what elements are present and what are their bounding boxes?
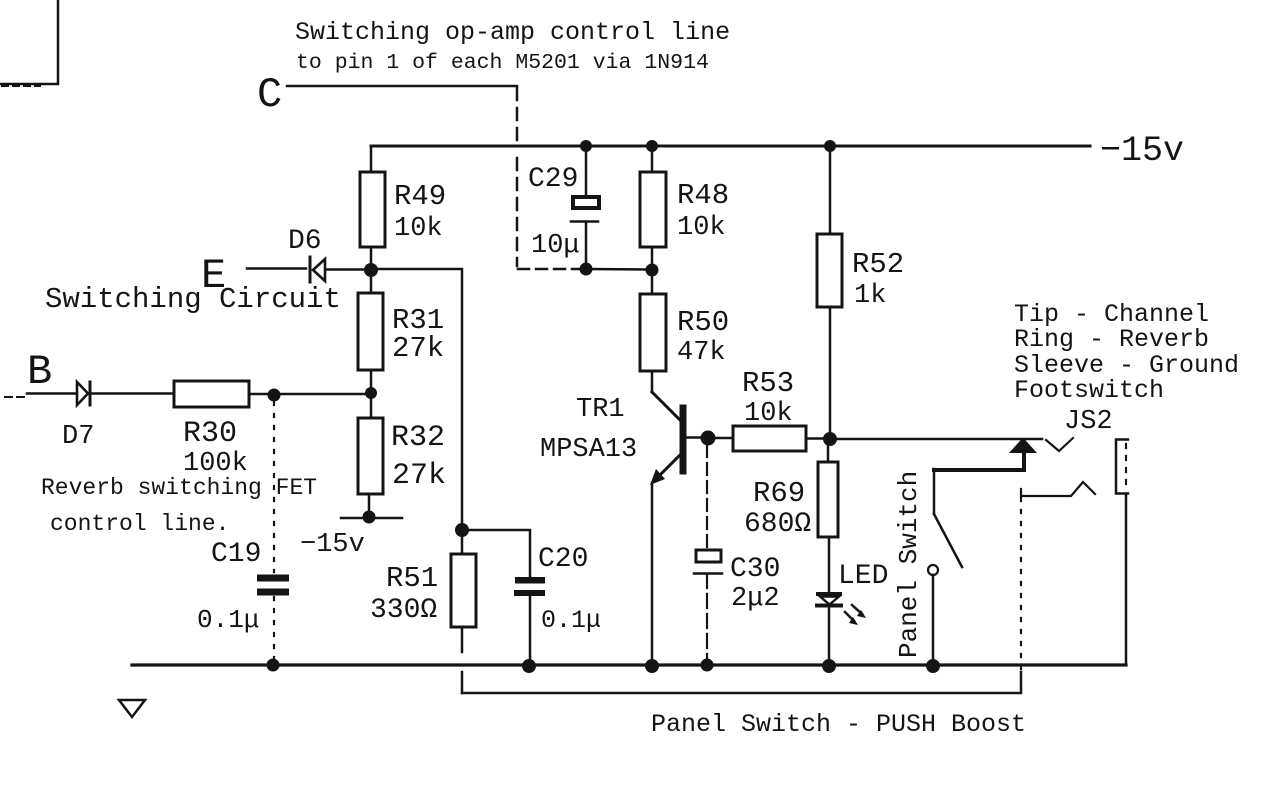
svg-text:control line.: control line.: [50, 511, 229, 537]
svg-text:C30: C30: [730, 554, 780, 585]
svg-text:1k: 1k: [854, 281, 886, 311]
svg-text:D7: D7: [62, 422, 94, 452]
junction dot reverb control tap: [268, 389, 281, 402]
svg-text:27k: 27k: [392, 459, 446, 493]
svg-text:C20: C20: [538, 544, 588, 575]
dashed wire C19 down to ground rail: [273, 597, 275, 660]
panel switch contact wire to ground rail: [932, 575, 935, 660]
wire from node C: [287, 85, 517, 88]
wire R50 bottom to TR1 collector: [651, 371, 654, 392]
ground rail junction dot C20: [522, 659, 536, 673]
junction dot R48 top on rail: [646, 140, 658, 152]
svg-text:R30: R30: [183, 417, 237, 451]
wire C29 bottom to R48 bottom: [586, 268, 648, 271]
junction dot C29 top on rail: [580, 140, 592, 152]
resistor R69: [744, 446, 838, 540]
svg-text:JS2: JS2: [1064, 407, 1113, 437]
jack wiring note text: [1014, 300, 1239, 405]
svg-text:−15v: −15v: [1100, 131, 1184, 171]
wire rail corner down to R49: [370, 147, 373, 172]
svg-text:LED: LED: [838, 561, 888, 592]
svg-text:R49: R49: [394, 180, 446, 213]
capacitor C29: [528, 148, 599, 264]
label JS2: [1064, 407, 1113, 437]
svg-text:R48: R48: [677, 179, 729, 212]
svg-text:R52: R52: [852, 248, 904, 281]
svg-text:MPSA13: MPSA13: [540, 435, 637, 465]
junction dot TR1 base node: [701, 431, 716, 446]
node E: [201, 252, 226, 300]
wire junction to right vertical: [378, 269, 462, 528]
ground rail junction dot C30: [701, 659, 714, 672]
svg-text:27k: 27k: [392, 332, 444, 365]
lower bus to panel switch: [462, 672, 1021, 693]
wire from E to D6: [247, 267, 306, 270]
svg-text:R53: R53: [742, 367, 794, 400]
junction dot R31/R32: [365, 387, 377, 399]
resistor R53: [733, 367, 806, 451]
wire node to C20: [469, 530, 530, 577]
note: switching op-amp control line text: [295, 18, 730, 75]
resistor R30: [174, 381, 249, 479]
resistor R32: [358, 399, 446, 494]
svg-text:TR1: TR1: [576, 395, 625, 425]
TR1 emitter wire down to ground rail: [651, 483, 654, 660]
wire R49 bottom: [370, 247, 373, 266]
svg-text:C19: C19: [211, 539, 261, 570]
svg-text:10k: 10k: [677, 213, 726, 243]
jack tip plug arrow: [1009, 438, 1037, 454]
svg-text:Reverb switching FET: Reverb switching FET: [41, 475, 317, 501]
node B: [27, 348, 52, 396]
svg-text:R69: R69: [753, 477, 805, 510]
svg-text:D6: D6: [288, 226, 322, 257]
transistor TR1: [540, 392, 701, 485]
jack sleeve bracket JS2: [1116, 440, 1128, 494]
node C: [257, 71, 282, 119]
capacitor C19: [197, 539, 289, 635]
junction dot R48/R50: [646, 264, 659, 277]
svg-text:R32: R32: [391, 421, 445, 455]
diode D7: [62, 382, 174, 452]
jack tip contact: [1046, 438, 1073, 451]
svg-text:0.1μ: 0.1μ: [197, 605, 259, 635]
junction dot C29 bottom: [580, 263, 593, 276]
junction dot R51/C20 node: [455, 523, 469, 537]
capacitor C30: [694, 550, 780, 660]
dashed wire base node down to C30: [706, 445, 708, 550]
label Reverb switching FET control line: [41, 475, 317, 537]
-15v label top right: [1100, 131, 1184, 171]
svg-text:Switching Circuit: Switching Circuit: [45, 283, 341, 316]
svg-text:47k: 47k: [677, 338, 726, 368]
resistor R52: [817, 148, 904, 311]
svg-text:C29: C29: [528, 164, 578, 195]
resistor R31: [358, 277, 444, 370]
svg-text:10k: 10k: [744, 399, 793, 429]
svg-text:10k: 10k: [394, 214, 443, 244]
border corner box top-left: [0, 0, 58, 86]
svg-text:R51: R51: [386, 562, 438, 595]
svg-text:Panel Switch - PUSH Boost: Panel Switch - PUSH Boost: [651, 710, 1026, 739]
svg-text:10μ: 10μ: [531, 231, 580, 261]
label Switching Circuit: [45, 283, 341, 316]
ground rail junction dot TR1 emitter: [645, 659, 659, 673]
-15v terminal under R32: [300, 494, 402, 560]
dashed control line from C down to C29 bottom node: [517, 88, 580, 269]
wire R52 bottom to node: [829, 307, 832, 432]
svg-text:330Ω: 330Ω: [370, 595, 437, 626]
junction dot R52 top on rail: [824, 140, 836, 152]
wire node to jack tip: [837, 438, 1042, 441]
wire B to D7 with leading dashes: [5, 394, 77, 398]
wire R31 bottom: [370, 370, 373, 392]
svg-text:Panel Switch: Panel Switch: [894, 471, 924, 658]
wire jack sleeve to ground rail: [1125, 494, 1128, 664]
label Panel Switch (vertical): [894, 471, 924, 658]
ground rail junction dot panel switch: [926, 659, 940, 673]
resistor R48: [640, 148, 729, 263]
svg-text:Ring - Reverb: Ring - Reverb: [1014, 325, 1209, 354]
dashed wire junction down to C19: [273, 402, 275, 572]
svg-text:C: C: [257, 71, 282, 119]
ground symbol: [119, 700, 145, 717]
resistor R49: [360, 172, 446, 247]
svg-text:680Ω: 680Ω: [744, 509, 811, 540]
wire R30 to R31 bottom junction: [249, 393, 368, 396]
-15v supply rail (top): [371, 145, 1090, 148]
svg-text:R50: R50: [677, 306, 729, 339]
label Panel Switch - PUSH Boost: [651, 710, 1026, 739]
dashed wire ring contact down to lower bus: [1020, 498, 1022, 670]
ground rail junction dot LED: [822, 659, 836, 673]
svg-text:2μ2: 2μ2: [731, 584, 780, 614]
panel switch blade: [934, 514, 962, 567]
resistor R50: [640, 277, 729, 371]
diode D6: [288, 226, 363, 282]
svg-text:B: B: [27, 348, 52, 396]
svg-text:0.1μ: 0.1μ: [541, 606, 601, 635]
svg-text:−15v: −15v: [300, 530, 365, 560]
ground rail: [132, 663, 1126, 666]
junction dot R52/R53/R69 node: [823, 432, 837, 446]
svg-text:Switching op-amp control line: Switching op-amp control line: [295, 18, 730, 47]
panel switch contact circle: [928, 565, 938, 575]
jack ring contact: [1021, 482, 1095, 496]
capacitor C20: [514, 544, 601, 660]
svg-text:to pin 1 of each M5201 via 1N9: to pin 1 of each M5201 via 1N914: [296, 51, 709, 75]
junction dot D6/R49/R31: [364, 263, 378, 277]
wire R53 to R52/R69 node: [806, 437, 824, 440]
panel switch pole wire from tip: [934, 453, 1024, 514]
wire R51 bottom crossing ground rail to lower bus: [461, 627, 464, 693]
LED: [815, 537, 888, 660]
LED light ray arrows: [845, 605, 866, 625]
wire base node to R53: [715, 437, 733, 440]
svg-text:Footswitch: Footswitch: [1014, 376, 1164, 405]
ground rail junction dot C19: [267, 659, 280, 672]
resistor R51: [370, 537, 476, 627]
